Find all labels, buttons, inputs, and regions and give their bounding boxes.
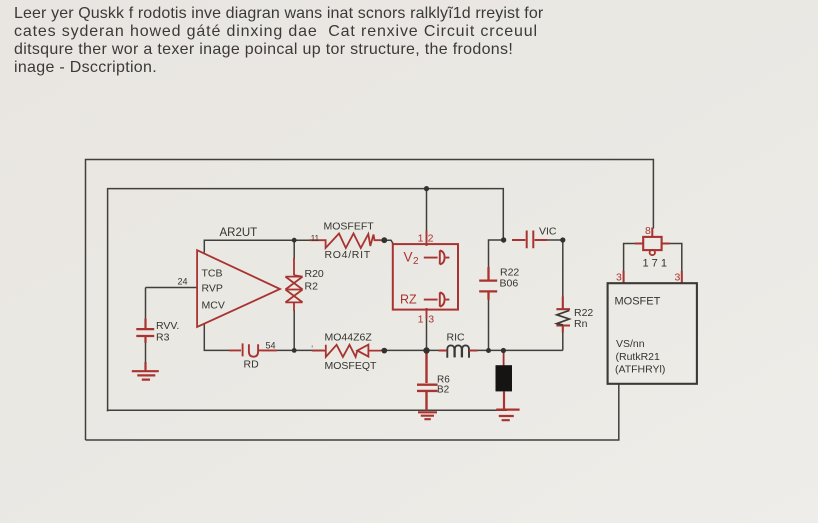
capacitor symbol RZ <box>424 292 450 306</box>
svg-text:B06: B06 <box>500 278 519 290</box>
wire inner loop left+top <box>108 189 504 412</box>
node V2 bottom <box>423 347 429 353</box>
MOSFET U3 box <box>608 283 697 384</box>
wire outer loop bottom <box>86 385 619 441</box>
svg-text:3: 3 <box>428 314 434 326</box>
resistor R22 Rn <box>556 297 570 333</box>
svg-text:V: V <box>404 250 413 265</box>
node at inner top / V2 branch <box>424 186 429 191</box>
wire gate left pin <box>624 244 636 284</box>
wire red stub out of V2 box bottom <box>426 308 428 319</box>
svg-text:(ATFHRYl): (ATFHRYl) <box>615 364 665 376</box>
svg-text:Rn: Rn <box>574 318 588 330</box>
svg-text:R20: R20 <box>305 268 324 280</box>
svg-text:VS/nn: VS/nn <box>616 338 645 350</box>
svg-text:MCV: MCV <box>202 300 225 312</box>
inductor RIC red leads <box>439 350 478 352</box>
svg-text:MOSFET: MOSFET <box>615 296 661 308</box>
wire node A to V2 box <box>381 240 394 243</box>
svg-text:1 7 1: 1 7 1 <box>643 258 667 270</box>
svg-text:AR2UT: AR2UT <box>220 227 258 239</box>
node VIC left <box>501 237 506 242</box>
capacitor RVV R3 <box>136 319 154 371</box>
svg-text:R2: R2 <box>305 281 319 293</box>
node B06 bottom <box>486 348 491 353</box>
gate U2 bubble <box>650 250 655 255</box>
wire inner loop bottom <box>108 410 507 411</box>
svg-text:MOSFEQT: MOSFEQT <box>325 360 378 372</box>
wire B06 branch <box>489 240 504 350</box>
wire VIC to R22 Rn <box>544 240 563 350</box>
svg-text:3: 3 <box>616 272 622 284</box>
node MO44 right <box>381 348 387 354</box>
gate U2 side stubs <box>635 243 670 245</box>
svg-text:B2: B2 <box>437 385 450 396</box>
black box diode D1 <box>496 365 513 391</box>
red lead above R6 B2 <box>417 352 438 411</box>
svg-text:RIC: RIC <box>447 332 466 344</box>
resistor R22 Rn zigzag <box>557 310 570 325</box>
wire red stub into V2 box top <box>426 231 428 247</box>
node diode top <box>501 348 506 353</box>
node V2 input <box>381 237 387 243</box>
node R20 bottom <box>292 348 297 353</box>
inductor RIC <box>447 345 469 357</box>
gate U2 lead <box>651 228 653 237</box>
ground below R3 <box>132 371 159 379</box>
svg-text:2: 2 <box>428 232 434 244</box>
svg-text:54: 54 <box>266 341 276 351</box>
svg-text:RVV.: RVV. <box>156 320 179 332</box>
gate U2 box <box>643 237 661 250</box>
ground below R6 B2 <box>418 412 437 419</box>
resistor RO4/RIT MOSFEFT <box>310 234 382 249</box>
capacitor RD 54 <box>229 343 277 356</box>
component box V2 RZ <box>393 244 458 310</box>
node R20 top <box>292 238 297 243</box>
wire op-amp input <box>146 288 198 365</box>
svg-text:1: 1 <box>418 232 424 244</box>
svg-text:RO4/RIT: RO4/RIT <box>325 249 371 261</box>
svg-text:TCB: TCB <box>202 268 223 280</box>
resistor R20 R2 <box>285 258 302 311</box>
wire feedback bottom bus <box>204 324 563 351</box>
wire diode branch <box>503 352 505 366</box>
svg-text:RZ: RZ <box>400 293 417 307</box>
svg-text:2: 2 <box>413 256 419 267</box>
svg-text:R3: R3 <box>156 332 170 344</box>
wire outer loop left+top <box>86 160 654 441</box>
capacitor symbol V2 <box>424 250 450 264</box>
svg-text:RVP: RVP <box>202 283 223 295</box>
capacitor R22 B06 <box>479 267 497 300</box>
pin tick 3 right <box>681 271 683 283</box>
capacitor VIC <box>512 231 547 249</box>
svg-text:,: , <box>311 340 313 349</box>
diode lead + ground below black box <box>496 391 519 420</box>
svg-text:8: 8 <box>645 225 651 237</box>
op-amp U1 AR2UT <box>197 250 280 327</box>
wire op-amp output to node A <box>204 240 310 252</box>
caption paragraph <box>14 5 543 77</box>
svg-text:3: 3 <box>675 272 681 284</box>
svg-text:MO44Z6Z: MO44Z6Z <box>325 332 373 344</box>
svg-text:MOSFEFT: MOSFEFT <box>324 221 375 233</box>
svg-text:1: 1 <box>418 314 424 326</box>
svg-text:(RutkR21: (RutkR21 <box>616 351 661 363</box>
pin tick 3 left <box>623 271 625 283</box>
wire R20 branch vertical <box>293 240 295 350</box>
wire V2 box bottom <box>426 318 428 350</box>
svg-text:24: 24 <box>178 277 188 287</box>
svg-text:VIC: VIC <box>539 226 557 238</box>
wire gate right pin <box>670 244 682 284</box>
svg-text:RD: RD <box>244 359 260 371</box>
node VIC right <box>560 237 565 242</box>
wire V2 box top <box>426 189 428 231</box>
resistor-diode MO44Z6Z MOSFEQT <box>312 345 381 357</box>
svg-text:11: 11 <box>311 234 320 243</box>
